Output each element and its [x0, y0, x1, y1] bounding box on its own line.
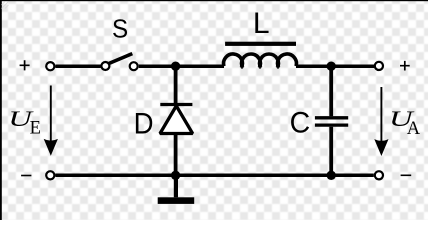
- switch S lever: [109, 54, 133, 64]
- capacitor C bottom plate: [315, 123, 348, 126]
- diode D triangle: [160, 106, 193, 134]
- wire inductor to node B: [296, 64, 374, 68]
- plus sign right: [400, 61, 410, 71]
- wire diode to bottom rail: [174, 134, 178, 176]
- svg-text:C: C: [290, 107, 311, 140]
- label D: [134, 107, 154, 140]
- label C: [290, 107, 311, 140]
- svg-text:S: S: [112, 15, 128, 44]
- arrow U_E: [50, 86, 52, 146]
- ground stem: [174, 175, 178, 197]
- node A junction dot: [171, 61, 180, 70]
- bottom junction dot under capacitor: [327, 171, 336, 180]
- frame top edge: [0, 0, 428, 1]
- node B junction dot: [327, 61, 336, 70]
- terminal left bottom: [46, 171, 54, 179]
- terminal left top: [46, 62, 54, 70]
- inductor L core bar: [225, 42, 296, 46]
- svg-text:D: D: [134, 107, 154, 140]
- capacitor C top plate: [315, 116, 348, 119]
- arrow U_A: [380, 87, 382, 145]
- bottom rail wire: [55, 174, 373, 178]
- wire capacitor to bottom rail: [329, 127, 333, 176]
- svg-text:L: L: [253, 7, 270, 40]
- label S: [112, 15, 128, 44]
- svg-text:A: A: [407, 119, 421, 139]
- minus sign right: [401, 174, 412, 176]
- frame left edge: [0, 0, 2, 220]
- svg-text:E: E: [30, 119, 41, 139]
- plus sign left: [20, 60, 30, 70]
- inductor L windings: [224, 54, 297, 68]
- corner hatch: [2, 2, 9, 9]
- diode D cathode bar: [160, 103, 192, 106]
- wire terminal to switch: [55, 64, 100, 68]
- wire node A down to diode: [174, 66, 178, 103]
- ground bar: [158, 197, 195, 204]
- label U_A: [389, 107, 415, 132]
- wire switch to node A: [139, 64, 224, 68]
- wire node B down to capacitor: [329, 66, 333, 116]
- minus sign left: [21, 175, 31, 177]
- terminal right top: [375, 62, 383, 70]
- label U_E: [8, 107, 34, 132]
- switch S left contact: [101, 62, 109, 70]
- switch S right contact: [130, 62, 138, 70]
- terminal right bottom: [375, 171, 383, 179]
- bottom junction dot under diode: [171, 171, 180, 180]
